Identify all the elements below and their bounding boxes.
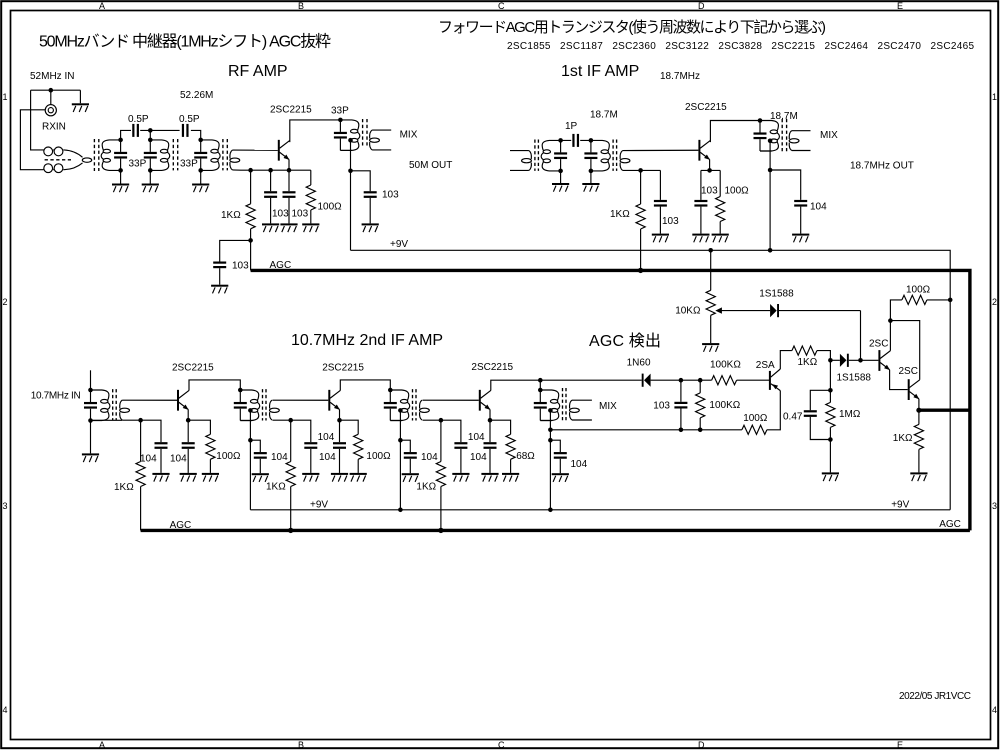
ground detector supply bypass <box>552 473 569 482</box>
node Q3 emitter <box>186 418 191 423</box>
svg-text:52.26M: 52.26M <box>180 90 213 101</box>
ground 1st IF tank2 <box>582 183 599 192</box>
ground timing network <box>822 472 839 481</box>
node detector rail junction <box>548 428 553 433</box>
svg-text:2SC2215: 2SC2215 <box>471 362 513 373</box>
svg-text:1: 1 <box>992 92 997 102</box>
wire Q1 emitter down <box>288 159 290 170</box>
wire MIX output lines detector <box>572 400 592 420</box>
node RF output tank top <box>338 118 343 123</box>
capacitor 103 RF emitter first <box>264 170 277 223</box>
ground AGC output resistor <box>910 472 927 481</box>
svg-text:MIX: MIX <box>820 130 838 141</box>
ground stage3 emitter resistor <box>502 473 519 482</box>
node tank1 top <box>118 138 123 143</box>
svg-text:フォワードAGC用トランジスタ(使う周波数により下記から選ぶ: フォワードAGC用トランジスタ(使う周波数により下記から選ぶ) <box>438 19 826 36</box>
potentiometer tap arrow <box>715 307 722 313</box>
wire base stage1 <box>122 399 177 401</box>
wire junction up to tap line <box>860 311 862 361</box>
wire input tank bottom bridge <box>91 419 123 421</box>
svg-text:104: 104 <box>319 452 336 463</box>
svg-text:2SA: 2SA <box>756 360 775 371</box>
wire Q4 emitter down <box>339 409 341 420</box>
wire base stage3 <box>423 399 479 401</box>
node rail at 103 <box>679 428 684 433</box>
node detector tank top <box>538 388 543 393</box>
svg-text:104: 104 <box>571 459 588 470</box>
ground 1st IF emitter cap <box>692 234 709 243</box>
wire RXIN shield to balun bottom <box>20 110 45 170</box>
capacitor 103 detector <box>674 380 687 430</box>
svg-text:2SC2215: 2SC2215 <box>322 363 364 374</box>
svg-text:2022/05 JR1VCC: 2022/05 JR1VCC <box>899 691 971 702</box>
capacitor 104 detector supply bypass <box>550 440 566 473</box>
node detector tank junction <box>538 378 543 383</box>
node AGC top at 1st IF <box>638 268 643 273</box>
svg-text:104: 104 <box>468 432 485 443</box>
svg-text:0.5P: 0.5P <box>128 114 149 125</box>
wire 1st IF tank2 ground lead <box>590 171 592 183</box>
coil 1st IF tank1 <box>541 140 560 171</box>
capacitor 2nd IF tank2 <box>234 390 247 421</box>
node detector supply branch <box>548 438 553 443</box>
capacitor 1st IF tank1 <box>554 140 567 171</box>
ground 10KOhm divider <box>702 343 719 352</box>
node 2nd IF input tank bottom <box>88 418 93 423</box>
wire 1K to junction <box>817 351 831 361</box>
node Q2 emitter <box>707 168 712 173</box>
resistor 100KOhm detector load <box>696 380 705 430</box>
ground stage3 emitter cap <box>481 473 498 482</box>
wire MIX output lines RF <box>372 130 391 150</box>
node 18.7M tank supply tap <box>768 139 773 144</box>
capacitor 2nd IF input tank <box>84 390 97 421</box>
svg-text:18.7MHz: 18.7MHz <box>660 71 700 82</box>
svg-text:C: C <box>498 1 505 11</box>
wire 1st IF tank1 ground lead <box>560 171 562 183</box>
link tank3 <box>230 150 240 170</box>
wire detector tank supply drop <box>549 410 551 509</box>
resistor 100Ohm 1st IF emitter <box>716 170 725 233</box>
wire base 1st IF transistor <box>623 149 699 151</box>
wire 2nd IF input tank ground lead <box>90 421 92 454</box>
wire AGC top bus <box>251 270 970 530</box>
transformer T1 secondary coil <box>101 140 120 171</box>
resistor 100Ohm collector <box>902 295 927 304</box>
ground tank2 <box>142 184 159 193</box>
node coupling at tank2 <box>148 128 153 133</box>
node detector load top <box>698 378 703 383</box>
wire MIX output lines 18.7M <box>792 131 811 151</box>
node AGC bottom stage3 <box>438 528 443 533</box>
wire 100Ohm to +9V <box>927 299 950 301</box>
svg-text:103: 103 <box>701 186 718 197</box>
node Q1 emitter <box>287 168 292 173</box>
wire Q5 emitter down <box>489 409 491 420</box>
wire tank2 supply drop <box>249 410 251 509</box>
svg-text:1S1588: 1S1588 <box>837 373 872 384</box>
capacitor 33P tank3 <box>194 140 207 171</box>
capacitor 18.7M output tank <box>754 121 767 152</box>
wire +9V right vertical <box>949 300 951 510</box>
capacitor 33P output tank <box>334 120 347 150</box>
wire AGC output stub <box>919 409 971 412</box>
core 1st IF tank2 <box>613 140 617 171</box>
capacitor 33P tank1 <box>114 140 127 171</box>
ground stage1 emitter cap <box>180 473 197 482</box>
link detector MIX tank <box>570 400 580 420</box>
coil 18.7M output tank <box>760 121 779 152</box>
node tank2 bottom <box>148 168 153 173</box>
link 2nd IF input tank <box>120 400 130 420</box>
core 2nd IF tank2 <box>263 389 267 420</box>
node AGC output <box>916 408 921 413</box>
svg-text:2SC: 2SC <box>899 366 918 377</box>
svg-text:1st IF AMP: 1st IF AMP <box>561 63 639 80</box>
svg-text:1KΩ: 1KΩ <box>610 209 630 220</box>
wire emitter rail RF <box>251 169 311 171</box>
node Q4 emitter <box>337 418 342 423</box>
svg-text:33P: 33P <box>129 159 147 170</box>
core RF output tank <box>363 119 367 147</box>
node tank2 top <box>148 138 153 143</box>
node +9V rail tank4 <box>548 508 553 513</box>
transformer T1 core <box>94 139 98 171</box>
wire detector tank bottom <box>540 420 552 422</box>
resistor 1KOhm stage3 AGC <box>436 420 445 530</box>
node tank3 bottom <box>198 168 203 173</box>
svg-text:10.7MHz 2nd IF AMP: 10.7MHz 2nd IF AMP <box>291 332 443 349</box>
svg-text:E: E <box>897 1 903 11</box>
ground 1st IF emitter resistor <box>712 234 729 243</box>
resistor 1KOhm 1st IF <box>636 170 645 270</box>
svg-text:103: 103 <box>662 216 679 227</box>
svg-text:1S1588: 1S1588 <box>759 289 794 300</box>
node 1st IF tank1 top <box>558 138 563 143</box>
wire 2SC second emitter <box>918 399 920 410</box>
ground tank3 supply bypass <box>402 473 419 482</box>
capacitor 104 tank2 supply bypass <box>250 440 266 473</box>
node Q5 emitter <box>488 418 493 423</box>
wire junction down to timing network <box>829 360 831 390</box>
svg-text:3: 3 <box>3 501 8 511</box>
node RF AGC junction <box>248 238 253 243</box>
wire Q3 emitter down <box>187 409 189 420</box>
svg-text:C: C <box>498 740 505 750</box>
svg-text:104: 104 <box>421 452 438 463</box>
core 18.7M output tank <box>782 119 786 152</box>
ground AGC coupling cap <box>211 285 228 294</box>
ground RF emitter cap2 <box>280 223 297 232</box>
wire Q2 emitter down <box>709 159 711 170</box>
svg-text:AGC: AGC <box>939 519 961 530</box>
capacitor 104 stage3 base bypass <box>441 420 468 473</box>
capacitor 103 RF supply bypass <box>351 171 377 224</box>
resistor 1KOhm RF base bias <box>246 170 255 270</box>
svg-text:4: 4 <box>3 705 8 715</box>
wire link bottom stage2 <box>272 419 290 421</box>
resistor 1KOhm AGC output <box>914 410 923 472</box>
capacitor 1st IF tank2 <box>584 140 597 171</box>
svg-text:2SC2215: 2SC2215 <box>172 363 214 374</box>
svg-text:100KΩ: 100KΩ <box>709 400 740 411</box>
transistor 2SC first <box>878 350 890 371</box>
wire 100Ohm to 2SA emitter <box>767 391 780 430</box>
wire RF supply drop <box>350 140 352 250</box>
node 1st IF bias junction <box>638 168 643 173</box>
svg-text:1KΩ: 1KΩ <box>416 482 436 493</box>
svg-text:100KΩ: 100KΩ <box>710 360 741 371</box>
resistor 1KOhm stage2 AGC <box>286 420 295 530</box>
node +9V rail tank3 <box>398 508 403 513</box>
transistor 2SC second <box>908 379 920 400</box>
svg-text:50MHzバンド 中継器(1MHzシフト) AGC抜粋: 50MHzバンド 中継器(1MHzシフト) AGC抜粋 <box>39 33 331 51</box>
svg-text:104: 104 <box>140 454 157 465</box>
node threshold junction <box>828 358 833 363</box>
core tank3 <box>223 139 227 170</box>
wire 18.7M tank bottom <box>760 150 772 152</box>
ground 1st IF tank1 <box>552 183 569 192</box>
capacitor 104 stage2 base bypass <box>291 420 318 473</box>
node 1st IF tank2 bottom <box>589 169 594 174</box>
core detector MIX tank <box>563 388 567 421</box>
wire link bottom to emitter rail <box>232 169 250 171</box>
wire +9V top rail <box>351 250 951 300</box>
wire tank3 bottom to ground <box>200 170 202 183</box>
wire Q3 collector to tank2 <box>189 380 240 391</box>
wire Q2 emitter split <box>701 169 720 171</box>
capacitor detector MIX tank <box>534 390 547 421</box>
ground tank3 <box>192 184 209 193</box>
wire coupling line top <box>121 130 201 140</box>
capacitor 104 stage2 emitter <box>333 420 346 473</box>
svg-text:100Ω: 100Ω <box>366 451 391 462</box>
link RF output MIX <box>370 130 380 150</box>
svg-text:100Ω: 100Ω <box>725 186 750 197</box>
coil 2nd IF input tank <box>91 390 110 421</box>
node timing network bottom <box>828 437 833 442</box>
node +9V at 18.7M drop <box>768 248 773 253</box>
node tank3 supply tap <box>398 408 403 413</box>
svg-text:AGC 検出: AGC 検出 <box>589 332 661 350</box>
svg-text:AGC: AGC <box>170 520 192 531</box>
ground RF emitter cap1 <box>262 223 279 232</box>
node collector tie <box>888 318 893 323</box>
coil detector MIX tank <box>540 390 559 421</box>
ground tank2 supply bypass <box>252 473 269 482</box>
svg-text:2SC2215: 2SC2215 <box>685 102 727 113</box>
wire link bottom stage3 <box>423 419 441 421</box>
wire base stage2 <box>272 399 328 401</box>
resistor 10KOhm divider <box>706 250 715 343</box>
svg-text:1KΩ: 1KΩ <box>266 482 286 493</box>
coil 2nd IF tank3 <box>390 390 409 421</box>
svg-text:18.7M: 18.7M <box>590 110 618 121</box>
svg-text:10.7MHz IN: 10.7MHz IN <box>31 391 81 402</box>
link 2nd IF tank3 <box>420 400 430 420</box>
diode 1S1588 second <box>830 354 878 367</box>
node stage2 bias junction <box>288 418 293 423</box>
wire detector line to diode <box>540 379 641 381</box>
svg-text:1KΩ: 1KΩ <box>114 482 134 493</box>
svg-text:1KΩ: 1KΩ <box>893 433 913 444</box>
capacitor 104 tank3 supply bypass <box>400 440 416 473</box>
svg-text:1KΩ: 1KΩ <box>798 357 818 368</box>
svg-text:103: 103 <box>232 261 249 272</box>
wire tank3 bottom <box>390 420 402 422</box>
svg-text:+9V: +9V <box>310 500 328 511</box>
capacitor 1P <box>572 134 579 147</box>
transistor Q4 2SC2215 stage2 <box>328 390 340 411</box>
wire +9V bottom rail <box>250 509 950 511</box>
node RF supply branch <box>348 169 353 174</box>
wire antenna input top <box>31 90 81 150</box>
wire Q4 collector to tank3 <box>340 380 390 391</box>
link 18.7M output MIX <box>789 131 799 151</box>
wire Q2 collector to output tank <box>710 121 760 143</box>
svg-text:50M OUT: 50M OUT <box>409 160 452 171</box>
resistor 100Ohm stage1 emitter <box>188 420 215 473</box>
node RF bias junction <box>248 168 253 173</box>
wire 2nd IF input stub <box>90 370 92 390</box>
node detector output <box>679 378 684 383</box>
wire Q5 collector to detector line <box>491 380 541 390</box>
capacitor 0.5P first <box>132 124 139 137</box>
wire base RF transistor <box>232 149 277 151</box>
node stage1 bias junction <box>138 418 143 423</box>
resistor 1KOhm detector series <box>792 346 817 355</box>
core 2nd IF tank3 <box>413 389 417 420</box>
node detector tank supply tap <box>548 408 553 413</box>
svg-text:10KΩ: 10KΩ <box>675 306 701 317</box>
wire 1P coupling <box>561 139 591 141</box>
node RF tank supply tap <box>348 138 353 143</box>
ground tank1 <box>112 184 129 193</box>
svg-text:AGC: AGC <box>270 260 292 271</box>
svg-text:100Ω: 100Ω <box>216 451 241 462</box>
ground stage3 base bypass <box>452 473 469 482</box>
node AGC bottom stage2 <box>288 528 293 533</box>
svg-text:100Ω: 100Ω <box>318 202 343 213</box>
svg-text:2SC: 2SC <box>869 339 888 350</box>
wire tank2 bottom to ground <box>149 170 151 183</box>
node rail at 100K <box>698 428 703 433</box>
link 2nd IF tank2 <box>270 400 280 420</box>
core 1st IF tank1 <box>535 140 539 171</box>
node tank3 top <box>388 388 393 393</box>
node +9V at 10K divider <box>708 248 713 253</box>
svg-text:100Ω: 100Ω <box>743 413 768 424</box>
link 1st IF tank2 <box>620 151 630 171</box>
wire detector bottom rail <box>550 429 742 431</box>
transistor Q2 2SC2215 1st IF <box>698 140 710 161</box>
capacitor 103 1st IF emitter <box>694 170 707 233</box>
wire timing to ground <box>829 440 831 473</box>
capacitor 104 stage1 emitter <box>182 420 195 473</box>
resistor 100Ohm 2SA emitter <box>742 425 767 434</box>
svg-text:0.5P: 0.5P <box>179 114 200 125</box>
svg-text:+9V: +9V <box>891 500 909 511</box>
svg-text:MIX: MIX <box>400 130 418 141</box>
node tank1 bottom <box>118 168 123 173</box>
resistor 1KOhm stage1 AGC <box>136 420 145 530</box>
transistor Q5 2SC2215 stage3 <box>479 390 491 411</box>
node +9V at 100Ohm <box>948 298 953 303</box>
node 1st IF tank2 top <box>589 138 594 143</box>
wire tank1 bottom to ground <box>120 170 122 183</box>
svg-text:2SC2215: 2SC2215 <box>270 105 312 116</box>
svg-text:52MHz IN: 52MHz IN <box>30 71 74 82</box>
svg-text:104: 104 <box>170 454 187 465</box>
wire diode to 2SA base <box>651 379 769 381</box>
svg-text:0.47: 0.47 <box>783 412 803 423</box>
capacitor 33P tank2 <box>144 140 157 171</box>
svg-text:1N60: 1N60 <box>627 358 651 369</box>
svg-text:RXIN: RXIN <box>42 122 66 133</box>
capacitor 103 1st IF base bypass <box>654 170 667 233</box>
capacitor 103 AGC coupling <box>213 240 250 284</box>
diode 1S1588 first <box>721 304 861 317</box>
connector RXIN <box>45 105 56 116</box>
svg-text:3: 3 <box>992 501 997 511</box>
node tank3 supply branch <box>398 438 403 443</box>
wire output tank bottom <box>340 149 352 151</box>
svg-text:B: B <box>298 1 304 11</box>
ground antenna <box>72 103 89 112</box>
node antenna junction <box>49 88 54 93</box>
resistor 100KOhm series <box>712 376 737 385</box>
svg-text:2SC1855 2SC1187 2SC2360: 2SC1855 2SC1187 2SC2360 2SC3122 2SC3828 … <box>507 41 974 52</box>
svg-text:B: B <box>298 740 304 750</box>
wire 1st IF input stubs <box>510 151 529 171</box>
wire AGC bottom bus <box>141 529 970 532</box>
ground 1st IF base bypass <box>652 234 669 243</box>
transformer T1 balun input winding <box>40 147 92 173</box>
node 18.7M supply branch <box>768 168 773 173</box>
capacitor 104 stage1 base bypass <box>141 420 168 473</box>
resistor 100Ohm RF emitter <box>306 170 315 223</box>
transistor Q1 2SC2215 RF <box>278 140 290 161</box>
ground stage1 base bypass <box>152 473 169 482</box>
wire link bottom stage1 <box>122 419 140 421</box>
node stage3 bias junction <box>439 418 444 423</box>
svg-text:E: E <box>897 740 903 750</box>
ground 18.7M supply bypass <box>792 234 809 243</box>
svg-text:100Ω: 100Ω <box>906 285 931 296</box>
diode 1N60 <box>642 374 651 387</box>
coil RF output tank <box>340 120 359 150</box>
node tank2 top <box>238 388 243 393</box>
capacitor 0.47 timing <box>804 390 831 439</box>
link 1st IF input <box>522 151 532 171</box>
node 2SC base junction <box>858 358 863 363</box>
svg-text:4: 4 <box>992 705 997 715</box>
wire 2SC first emitter to second base <box>890 370 908 390</box>
resistor 1MOhm timing <box>826 390 835 439</box>
capacitor 104 stage3 emitter <box>484 420 497 473</box>
svg-text:RF AMP: RF AMP <box>228 63 288 80</box>
svg-text:1MΩ: 1MΩ <box>839 409 861 420</box>
coil 1st IF tank2 <box>591 140 610 171</box>
svg-text:33P: 33P <box>331 106 349 117</box>
ground 2nd IF input tank <box>82 453 99 462</box>
resistor 100Ohm stage2 emitter <box>340 420 363 473</box>
ground RF emitter resistor <box>302 223 319 232</box>
svg-text:18.7MHz OUT: 18.7MHz OUT <box>850 161 914 172</box>
svg-text:1P: 1P <box>565 121 578 132</box>
coil 2nd IF tank2 <box>240 390 259 421</box>
wire collector tie to 2SC second <box>890 321 919 380</box>
